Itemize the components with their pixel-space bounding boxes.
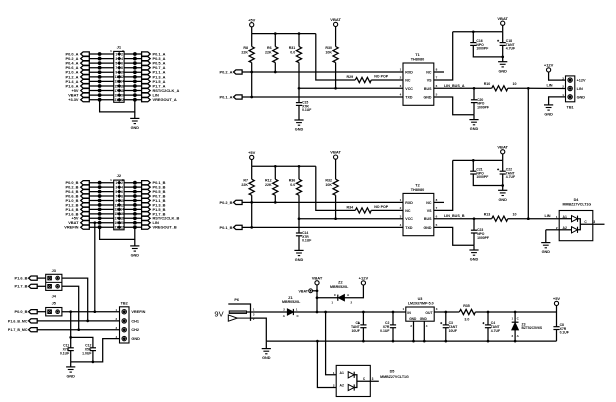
power VBAT [501, 150, 505, 154]
svg-text:7: 7 [115, 66, 117, 70]
J1 pin 10 P1.1_A (right row 5) [124, 71, 142, 73]
svg-text:RXD: RXD [405, 201, 413, 205]
svg-text:7: 7 [115, 194, 117, 198]
svg-text:R8: R8 [243, 46, 248, 50]
wire ground rail to D5 A2 [317, 341, 336, 387]
svg-text:VREFIN: VREFIN [131, 310, 145, 314]
resistor R31 0.0 [298, 34, 300, 47]
J2 pin 22 VREGOUT_B (right row 11) [124, 226, 142, 228]
svg-text:R30: R30 [325, 46, 332, 50]
ground [70, 362, 72, 367]
svg-text:VREFIN: VREFIN [64, 225, 78, 230]
resistor R30 10K [335, 27, 337, 47]
ground [473, 245, 475, 250]
svg-text:3: 3 [593, 220, 595, 224]
ground [473, 115, 475, 120]
wire VBAT to D5 A1 [326, 312, 337, 375]
D4 diode element 1 [559, 218, 571, 220]
svg-text:3: 3 [372, 377, 374, 381]
svg-text:R29: R29 [347, 75, 354, 79]
power +5V (A) [250, 23, 254, 27]
svg-text:T1: T1 [415, 53, 419, 57]
svg-text:2: 2 [121, 52, 123, 56]
resistor R13 10 [492, 216, 508, 221]
svg-text:NC: NC [426, 71, 432, 75]
svg-text:LIN_BUS_A: LIN_BUS_A [444, 84, 465, 88]
wire VBAT rail [293, 311, 405, 313]
svg-text:10: 10 [120, 71, 124, 75]
svg-text:P0.1_A: P0.1_A [220, 94, 233, 99]
resistor R35 3.0 [459, 309, 475, 314]
wire CH1 net: P1.6_B_MC to TB2 pin 2 [37, 320, 119, 322]
wire [37, 277, 46, 279]
svg-text:0.1UF: 0.1UF [302, 108, 311, 112]
svg-text:T2: T2 [415, 183, 419, 187]
svg-text:9: 9 [115, 71, 117, 75]
svg-text:NO POP: NO POP [374, 205, 389, 209]
power VBAT [501, 21, 505, 25]
wire [316, 285, 318, 312]
wire [344, 285, 363, 298]
svg-text:P6: P6 [234, 298, 239, 302]
wire D4 pin2 [546, 229, 559, 231]
capacitor C23 NPO 1000PF [473, 219, 475, 231]
svg-text:J3: J3 [52, 269, 56, 273]
resistor R8 22K [251, 34, 253, 47]
wire [37, 311, 46, 313]
J1 pin 20 LIN (right row 10) [124, 94, 142, 96]
D5 common cathode wire [354, 375, 379, 388]
T1 pin7 VS wire [434, 32, 453, 80]
svg-text:Z2: Z2 [338, 280, 342, 284]
svg-text:R6: R6 [267, 46, 272, 50]
svg-text:+5V: +5V [248, 150, 256, 155]
J3 pin 2 [56, 276, 60, 280]
svg-text:2: 2 [121, 181, 123, 185]
wire cap top rail [71, 312, 93, 348]
capacitor C11 [68, 347, 74, 349]
wire [556, 306, 558, 313]
power +5V [554, 301, 558, 305]
J2 pin 8 P0.7_B (right row 4) [124, 195, 142, 197]
TB2 pin 4 GND [122, 336, 126, 340]
svg-text:0.0: 0.0 [290, 183, 295, 187]
TB1 pin 1 GND [568, 95, 572, 99]
svg-text:TB1: TB1 [567, 105, 574, 109]
J2 pin 12 P1.3_B (right row 6) [124, 204, 142, 206]
svg-text:22K: 22K [241, 51, 248, 55]
svg-text:1: 1 [115, 52, 117, 56]
capacitor C2 X7R 0.1UF [392, 312, 394, 325]
J1 pin 22 VREGOUT_A (right row 11) [124, 99, 142, 101]
wire LIN_BUS_B [434, 218, 492, 220]
T1 pin5 GND wire [434, 97, 474, 115]
J5 pin 1 [48, 310, 52, 314]
J2 pin 16 P1.7_B (right row 8) [124, 213, 142, 215]
J2 pin 10 P1.1_B (right row 5) [124, 200, 142, 202]
svg-text:GND: GND [498, 198, 507, 202]
resistor R10 10 [492, 86, 508, 91]
svg-text:GND: GND [542, 250, 551, 254]
svg-text:MBR0520L: MBR0520L [282, 300, 301, 304]
wire CH2 net: P1.7_B_MC to TB2 pin 3 [37, 329, 119, 331]
terminal block TB1 [566, 76, 575, 102]
svg-text:1000PF: 1000PF [476, 175, 488, 179]
svg-text:MMBZ27VCLT1G: MMBZ27VCLT1G [380, 375, 409, 379]
J2 ground [134, 239, 136, 246]
svg-text:GND: GND [66, 375, 75, 379]
diode D5 MMBZ27VCLT1G [336, 365, 370, 396]
svg-text:GND: GND [420, 317, 428, 321]
svg-text:22K: 22K [265, 183, 272, 187]
svg-text:4.7UF: 4.7UF [506, 47, 515, 51]
power +12V [547, 68, 551, 72]
svg-text:VREGOUT_B: VREGOUT_B [153, 225, 177, 230]
wire +5V rail [475, 311, 556, 313]
svg-text:10: 10 [513, 82, 517, 86]
svg-text:VS: VS [427, 209, 432, 213]
svg-text:VREGOUT_A: VREGOUT_A [153, 97, 177, 102]
svg-text:CH2: CH2 [131, 328, 139, 332]
svg-text:+5V: +5V [553, 296, 561, 301]
svg-text:10: 10 [513, 213, 517, 217]
svg-text:VBAT: VBAT [330, 150, 341, 155]
svg-text:4: 4 [121, 185, 123, 189]
J2 pin 2 P0.1_B (right row 1) [124, 182, 142, 184]
wire LIN_BUS_A [434, 87, 492, 89]
wire TB2 pin4 GND to caps [71, 339, 120, 362]
power +5V (B) [250, 155, 254, 159]
D4 diode element 2 [559, 229, 571, 231]
svg-text:+12V: +12V [577, 79, 586, 83]
svg-text:P0.2_B: P0.2_B [220, 200, 233, 205]
J2 ground loop wire [100, 227, 135, 239]
svg-text:R13: R13 [484, 213, 491, 217]
TB2 pin 3 CH2 [122, 328, 126, 332]
power VBAT [315, 281, 319, 285]
svg-text:P1.7_B: P1.7_B [15, 284, 28, 289]
svg-text:3: 3 [115, 185, 117, 189]
J1 pin 8 P0.7_A (right row 4) [124, 67, 142, 69]
svg-text:GND: GND [470, 258, 479, 262]
ground [545, 230, 547, 243]
svg-text:VCC: VCC [405, 217, 413, 221]
svg-text:VBAT: VBAT [497, 144, 508, 149]
svg-text:P0.2_A: P0.2_A [220, 69, 233, 74]
wire [251, 63, 253, 98]
wire LIN to D4 [528, 218, 559, 220]
TB2 pin 2 CH1 [122, 319, 126, 323]
wire P6 sleeve to ground rail [251, 318, 267, 341]
J1 ground [134, 112, 136, 119]
svg-text:NC: NC [426, 201, 432, 205]
svg-text:OUT: OUT [425, 311, 433, 315]
J1 pin 16 P1.7_A (right row 8) [124, 85, 142, 87]
wire VCC line [299, 218, 403, 220]
J1 pin 4 P0.3_A (right row 2) [124, 58, 142, 60]
svg-text:TXD: TXD [405, 96, 413, 100]
capacitor C16 NPO 1000PF [472, 32, 474, 43]
svg-text:BUS: BUS [424, 217, 432, 221]
J2 pin 20 LIN (right row 10) [124, 222, 142, 224]
J3 pin 3 [48, 285, 52, 289]
svg-text:1: 1 [115, 181, 117, 185]
svg-text:4: 4 [121, 57, 123, 61]
svg-text:20: 20 [120, 93, 124, 97]
svg-text:RXD: RXD [405, 71, 413, 75]
svg-text:BUS: BUS [424, 87, 432, 91]
resistor R34 NO POP [316, 166, 355, 210]
svg-text:GND: GND [498, 69, 507, 73]
capacitor C18 TANT 4.7UF [502, 32, 504, 43]
VBAT decoupling rail [453, 159, 503, 161]
wire [251, 195, 253, 227]
svg-text:+12V: +12V [359, 276, 369, 281]
svg-text:A2: A2 [340, 384, 344, 388]
svg-text:R31: R31 [289, 46, 296, 50]
ground [544, 104, 553, 106]
svg-text:CH1: CH1 [131, 319, 139, 323]
wire J2 VREFIN to TB2 [93, 221, 96, 224]
ground [498, 61, 507, 63]
svg-text:0.1UF: 0.1UF [302, 239, 311, 243]
svg-text:P1.6_B: P1.6_B [15, 276, 28, 281]
svg-text:GND: GND [409, 317, 417, 321]
svg-text:+5V: +5V [248, 17, 256, 22]
svg-text:22: 22 [120, 98, 124, 102]
svg-text:GND: GND [544, 113, 553, 117]
svg-text:16: 16 [120, 84, 124, 88]
wire TXD line to T2 pin4 [242, 226, 403, 228]
J2 pin 4 P0.3_B (right row 2) [124, 186, 142, 188]
svg-text:R36: R36 [289, 179, 296, 183]
capacitor C3 TANT 10UF [445, 312, 447, 325]
svg-text:12: 12 [120, 75, 124, 79]
power +12V [361, 281, 365, 285]
TB1 pin 3 +12V [568, 78, 572, 82]
svg-text:6: 6 [121, 61, 123, 65]
svg-text:NO POP: NO POP [374, 75, 389, 79]
svg-text:0.0: 0.0 [290, 51, 295, 55]
D5 diode element 2 [348, 384, 354, 390]
svg-text:R35: R35 [463, 304, 470, 308]
capacitor C21 NPO 1000PF [472, 160, 474, 171]
capacitor C1 TANT 10UF [362, 312, 364, 325]
svg-text:GND: GND [262, 356, 271, 360]
svg-text:VBAT: VBAT [298, 289, 308, 293]
svg-text:R12: R12 [265, 179, 272, 183]
capacitor C4 TANT 4.7UF [487, 312, 489, 325]
capacitor C22 TANT 4.7UF [502, 160, 504, 171]
svg-text:LIN: LIN [544, 214, 550, 218]
D4 common cathode wire [578, 219, 605, 230]
wire RXD line to T1 pin1 [242, 71, 403, 73]
ground [298, 105, 300, 120]
svg-text:GND: GND [295, 128, 304, 132]
svg-text:IN: IN [407, 311, 411, 315]
wire VREFIN net: J5 to TB2 pin 1 [62, 311, 120, 313]
VBAT decoupling rail [453, 31, 503, 33]
capacitor C14 [298, 219, 300, 233]
ground [298, 236, 300, 251]
wire LIN [508, 87, 529, 89]
svg-text:MBR0520L: MBR0520L [330, 285, 349, 289]
svg-text:10UF: 10UF [449, 329, 457, 333]
svg-text:1000PF: 1000PF [477, 236, 489, 240]
svg-text:22: 22 [120, 226, 124, 230]
svg-text:P1.7_B_MC: P1.7_B_MC [8, 328, 28, 332]
wire 9V to Z1 [247, 311, 288, 313]
ground rail [266, 340, 556, 342]
svg-text:NC: NC [405, 79, 411, 83]
svg-text:14: 14 [120, 80, 124, 84]
svg-text:GND: GND [424, 226, 432, 230]
T1 pin8 NC stub [434, 71, 444, 73]
TB2 pin 1 VREFIN [122, 310, 126, 314]
svg-text:P1.6_B_MC: P1.6_B_MC [8, 319, 28, 323]
svg-text:+3.3V: +3.3V [68, 97, 79, 102]
svg-text:4.7UF: 4.7UF [491, 329, 500, 333]
ground [265, 341, 267, 349]
svg-text:VBAT: VBAT [312, 275, 323, 280]
wire [37, 285, 46, 287]
svg-text:3: 3 [115, 57, 117, 61]
svg-text:VS: VS [427, 79, 432, 83]
svg-text:10: 10 [120, 199, 124, 203]
svg-text:18: 18 [120, 217, 124, 221]
J1 ground loop wire [100, 100, 135, 112]
J1 pin 18 RST/C2CLK_A (right row 9) [124, 90, 142, 92]
zener Z3 BZT52C5V6S [514, 312, 516, 322]
J1 pin 14 P1.5_A (right row 7) [124, 80, 142, 82]
svg-text:0.1UF: 0.1UF [560, 331, 569, 335]
svg-text:R7: R7 [243, 179, 248, 183]
wire U3 out [434, 311, 459, 313]
wire +12V to TB1 pin3 [549, 72, 566, 80]
svg-text:TXD: TXD [405, 226, 413, 230]
T2 pin5 GND wire [434, 227, 474, 245]
power VBAT [334, 155, 338, 159]
resistor R6 22K [274, 34, 276, 47]
svg-text:U3: U3 [418, 297, 423, 301]
svg-text:22K: 22K [265, 51, 272, 55]
wire TB1 pin1 to ground [549, 97, 566, 105]
svg-text:12: 12 [120, 203, 124, 207]
resistor R7 22K [251, 166, 253, 179]
wire J3 pin2 down to CH1 [62, 278, 88, 321]
resistor R36 0.0 [298, 166, 300, 179]
svg-text:9: 9 [115, 199, 117, 203]
svg-text:BZT52C5V6S: BZT52C5V6S [522, 326, 543, 330]
svg-text:18: 18 [120, 89, 124, 93]
wire LIN [508, 218, 529, 220]
svg-text:NC: NC [405, 209, 411, 213]
svg-text:6: 6 [121, 190, 123, 194]
wire VCC line [299, 87, 403, 89]
svg-text:9V: 9V [214, 309, 223, 318]
svg-text:GND: GND [424, 96, 432, 100]
svg-text:LIN: LIN [546, 84, 552, 88]
J2 pin 6 P0.5_B (right row 3) [124, 191, 142, 193]
J1 pin 2 P0.1_A (right row 1) [124, 53, 142, 55]
svg-text:10K: 10K [325, 51, 332, 55]
T2 pin8 NC stub [434, 201, 444, 203]
svg-text:1.0UF: 1.0UF [82, 351, 91, 355]
U3 pin2 wire [413, 321, 415, 341]
svg-text:+12V: +12V [544, 63, 554, 68]
svg-text:LIN: LIN [577, 87, 583, 91]
svg-text:P0.1_B: P0.1_B [220, 225, 233, 230]
wire +5V rail [251, 27, 253, 34]
J1 pin 6 P0.5_A (right row 3) [124, 62, 142, 64]
svg-text:GND: GND [470, 127, 479, 131]
svg-text:TH8080: TH8080 [411, 57, 425, 61]
svg-text:R32: R32 [325, 179, 332, 183]
svg-text:VBAT: VBAT [330, 17, 341, 22]
svg-text:20: 20 [120, 221, 124, 225]
TB1 pin 2 LIN [568, 86, 572, 90]
svg-text:D5: D5 [390, 369, 395, 373]
svg-text:GND: GND [295, 258, 304, 262]
svg-text:22K: 22K [241, 183, 248, 187]
svg-text:5: 5 [115, 61, 117, 65]
svg-text:8: 8 [121, 66, 123, 70]
svg-text:1000PF: 1000PF [476, 47, 488, 51]
capacitor C15 [298, 88, 300, 102]
svg-text:10K: 10K [325, 183, 332, 187]
svg-text:P0.0_B: P0.0_B [15, 309, 28, 314]
svg-text:GND: GND [131, 337, 140, 341]
svg-text:J5: J5 [52, 302, 56, 306]
J2 pin 14 P1.5_B (right row 7) [124, 208, 142, 210]
ground [498, 189, 507, 191]
svg-text:14: 14 [120, 208, 124, 212]
capacitor C20 NPO 1000PF [473, 88, 475, 100]
svg-text:R10: R10 [484, 82, 491, 86]
svg-text:R34: R34 [347, 205, 354, 209]
J1 pin 12 P1.3_A (right row 6) [124, 76, 142, 78]
svg-text:VCC: VCC [405, 87, 413, 91]
wire LIN vertical [527, 88, 529, 218]
resistor R12 22K [274, 166, 276, 179]
svg-text:GND: GND [131, 254, 140, 258]
svg-text:1000PF: 1000PF [477, 105, 489, 109]
svg-text:GND: GND [131, 126, 140, 130]
svg-text:10UF: 10UF [352, 329, 360, 333]
wire +5V rail [251, 160, 253, 167]
J5 pin 2 [56, 310, 60, 314]
svg-text:0.1UF: 0.1UF [380, 329, 389, 333]
svg-text:TH8080: TH8080 [411, 188, 425, 192]
U3 pin4 wire [423, 321, 425, 341]
J3 pin 4 [56, 285, 60, 289]
svg-text:0.1UF: 0.1UF [60, 351, 69, 355]
svg-text:TB2: TB2 [121, 301, 128, 305]
T2 pin7 VS wire [434, 160, 453, 210]
svg-text:4.7UF: 4.7UF [506, 175, 515, 179]
svg-text:LM2937IMP-5.0: LM2937IMP-5.0 [408, 302, 434, 306]
capacitor C8 X7R 0.1UF [556, 312, 558, 327]
wire TXD line to T1 pin4 [242, 96, 403, 98]
wire RXD line to T2 pin1 [242, 201, 403, 203]
svg-text:3.0: 3.0 [464, 317, 469, 321]
svg-text:LIN_BUS_B: LIN_BUS_B [444, 214, 465, 218]
svg-text:5: 5 [115, 190, 117, 194]
svg-text:16: 16 [120, 212, 124, 216]
D5 diode element 1 [348, 372, 354, 378]
svg-text:GND: GND [577, 95, 586, 99]
power VBAT [334, 22, 338, 26]
